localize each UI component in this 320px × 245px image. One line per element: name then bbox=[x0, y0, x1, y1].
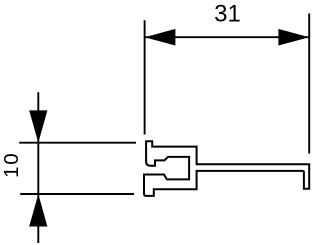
dimension 31: right arrowhead bbox=[278, 29, 309, 46]
svg-text:10: 10 bbox=[0, 151, 23, 177]
dimension 31: right extension line bbox=[308, 14, 310, 154]
dimension 10: dimension line bbox=[37, 92, 39, 243]
dimension 31: left arrowhead bbox=[145, 29, 176, 46]
profile cross-section outline bbox=[144, 141, 309, 196]
dimension 10: top extension line bbox=[19, 142, 136, 144]
dimension 10: top arrowhead (pointing down) bbox=[29, 110, 47, 142]
dimension 31: dimension line bbox=[145, 36, 310, 38]
dimension 31: left extension line bbox=[144, 20, 146, 134]
dimension 10: bottom arrowhead (pointing up) bbox=[29, 194, 47, 227]
svg-text:31: 31 bbox=[214, 0, 241, 27]
dimension 10: bottom extension line bbox=[20, 193, 134, 195]
